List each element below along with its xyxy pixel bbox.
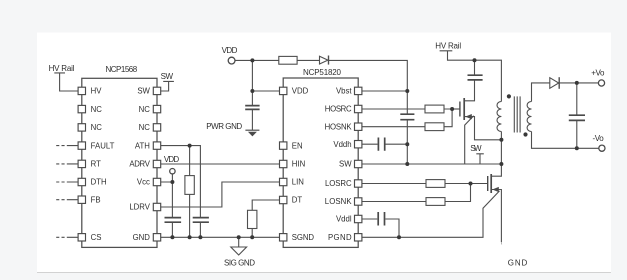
svg-text:DT: DT [292, 196, 303, 205]
svg-text:VDD: VDD [164, 155, 179, 164]
svg-text:NC: NC [91, 123, 103, 132]
svg-text:SW: SW [339, 160, 352, 169]
svg-text:HV Rail: HV Rail [49, 64, 75, 73]
svg-text:SGND: SGND [292, 233, 315, 242]
svg-text:PWR GND: PWR GND [206, 122, 242, 131]
svg-text:NC: NC [139, 123, 151, 132]
svg-text:ADRV: ADRV [129, 160, 150, 169]
svg-text:LDRV: LDRV [129, 203, 150, 212]
svg-text:NCP1568: NCP1568 [106, 65, 138, 74]
svg-text:+Vo: +Vo [591, 68, 605, 77]
svg-text:Vbst: Vbst [336, 87, 352, 96]
svg-text:EN: EN [292, 141, 303, 150]
svg-text:Vddl: Vddl [336, 215, 352, 224]
svg-text:LOSRC: LOSRC [325, 179, 352, 188]
svg-text:HV Rail: HV Rail [435, 41, 461, 50]
svg-text:DTH: DTH [91, 178, 107, 187]
svg-text:GND: GND [133, 233, 151, 242]
svg-text:VDD: VDD [292, 87, 309, 96]
svg-text:GND: GND [508, 258, 528, 267]
svg-text:SW: SW [137, 87, 150, 96]
svg-text:CS: CS [91, 233, 102, 242]
svg-text:VDD: VDD [222, 46, 238, 55]
svg-text:SW: SW [161, 72, 174, 81]
svg-text:HV: HV [91, 87, 103, 96]
svg-text:LOSNK: LOSNK [325, 197, 353, 206]
svg-text:SIG GND: SIG GND [224, 258, 255, 267]
svg-text:FB: FB [91, 195, 101, 204]
svg-text:HIN: HIN [292, 160, 305, 169]
svg-text:NCP51820: NCP51820 [303, 68, 342, 77]
svg-text:ATH: ATH [135, 141, 150, 150]
svg-text:RT: RT [91, 160, 101, 169]
svg-text:HOSNK: HOSNK [325, 122, 353, 131]
svg-text:-Vo: -Vo [593, 134, 605, 143]
svg-text:Vddh: Vddh [333, 140, 351, 149]
svg-text:FAULT: FAULT [91, 141, 115, 150]
svg-text:LIN: LIN [292, 178, 304, 187]
svg-text:NC: NC [91, 105, 103, 114]
svg-text:Vcc: Vcc [137, 178, 150, 187]
svg-text:PGND: PGND [328, 233, 352, 242]
svg-text:SW: SW [470, 144, 482, 153]
svg-text:NC: NC [139, 105, 151, 114]
svg-text:HOSRC: HOSRC [325, 105, 352, 114]
